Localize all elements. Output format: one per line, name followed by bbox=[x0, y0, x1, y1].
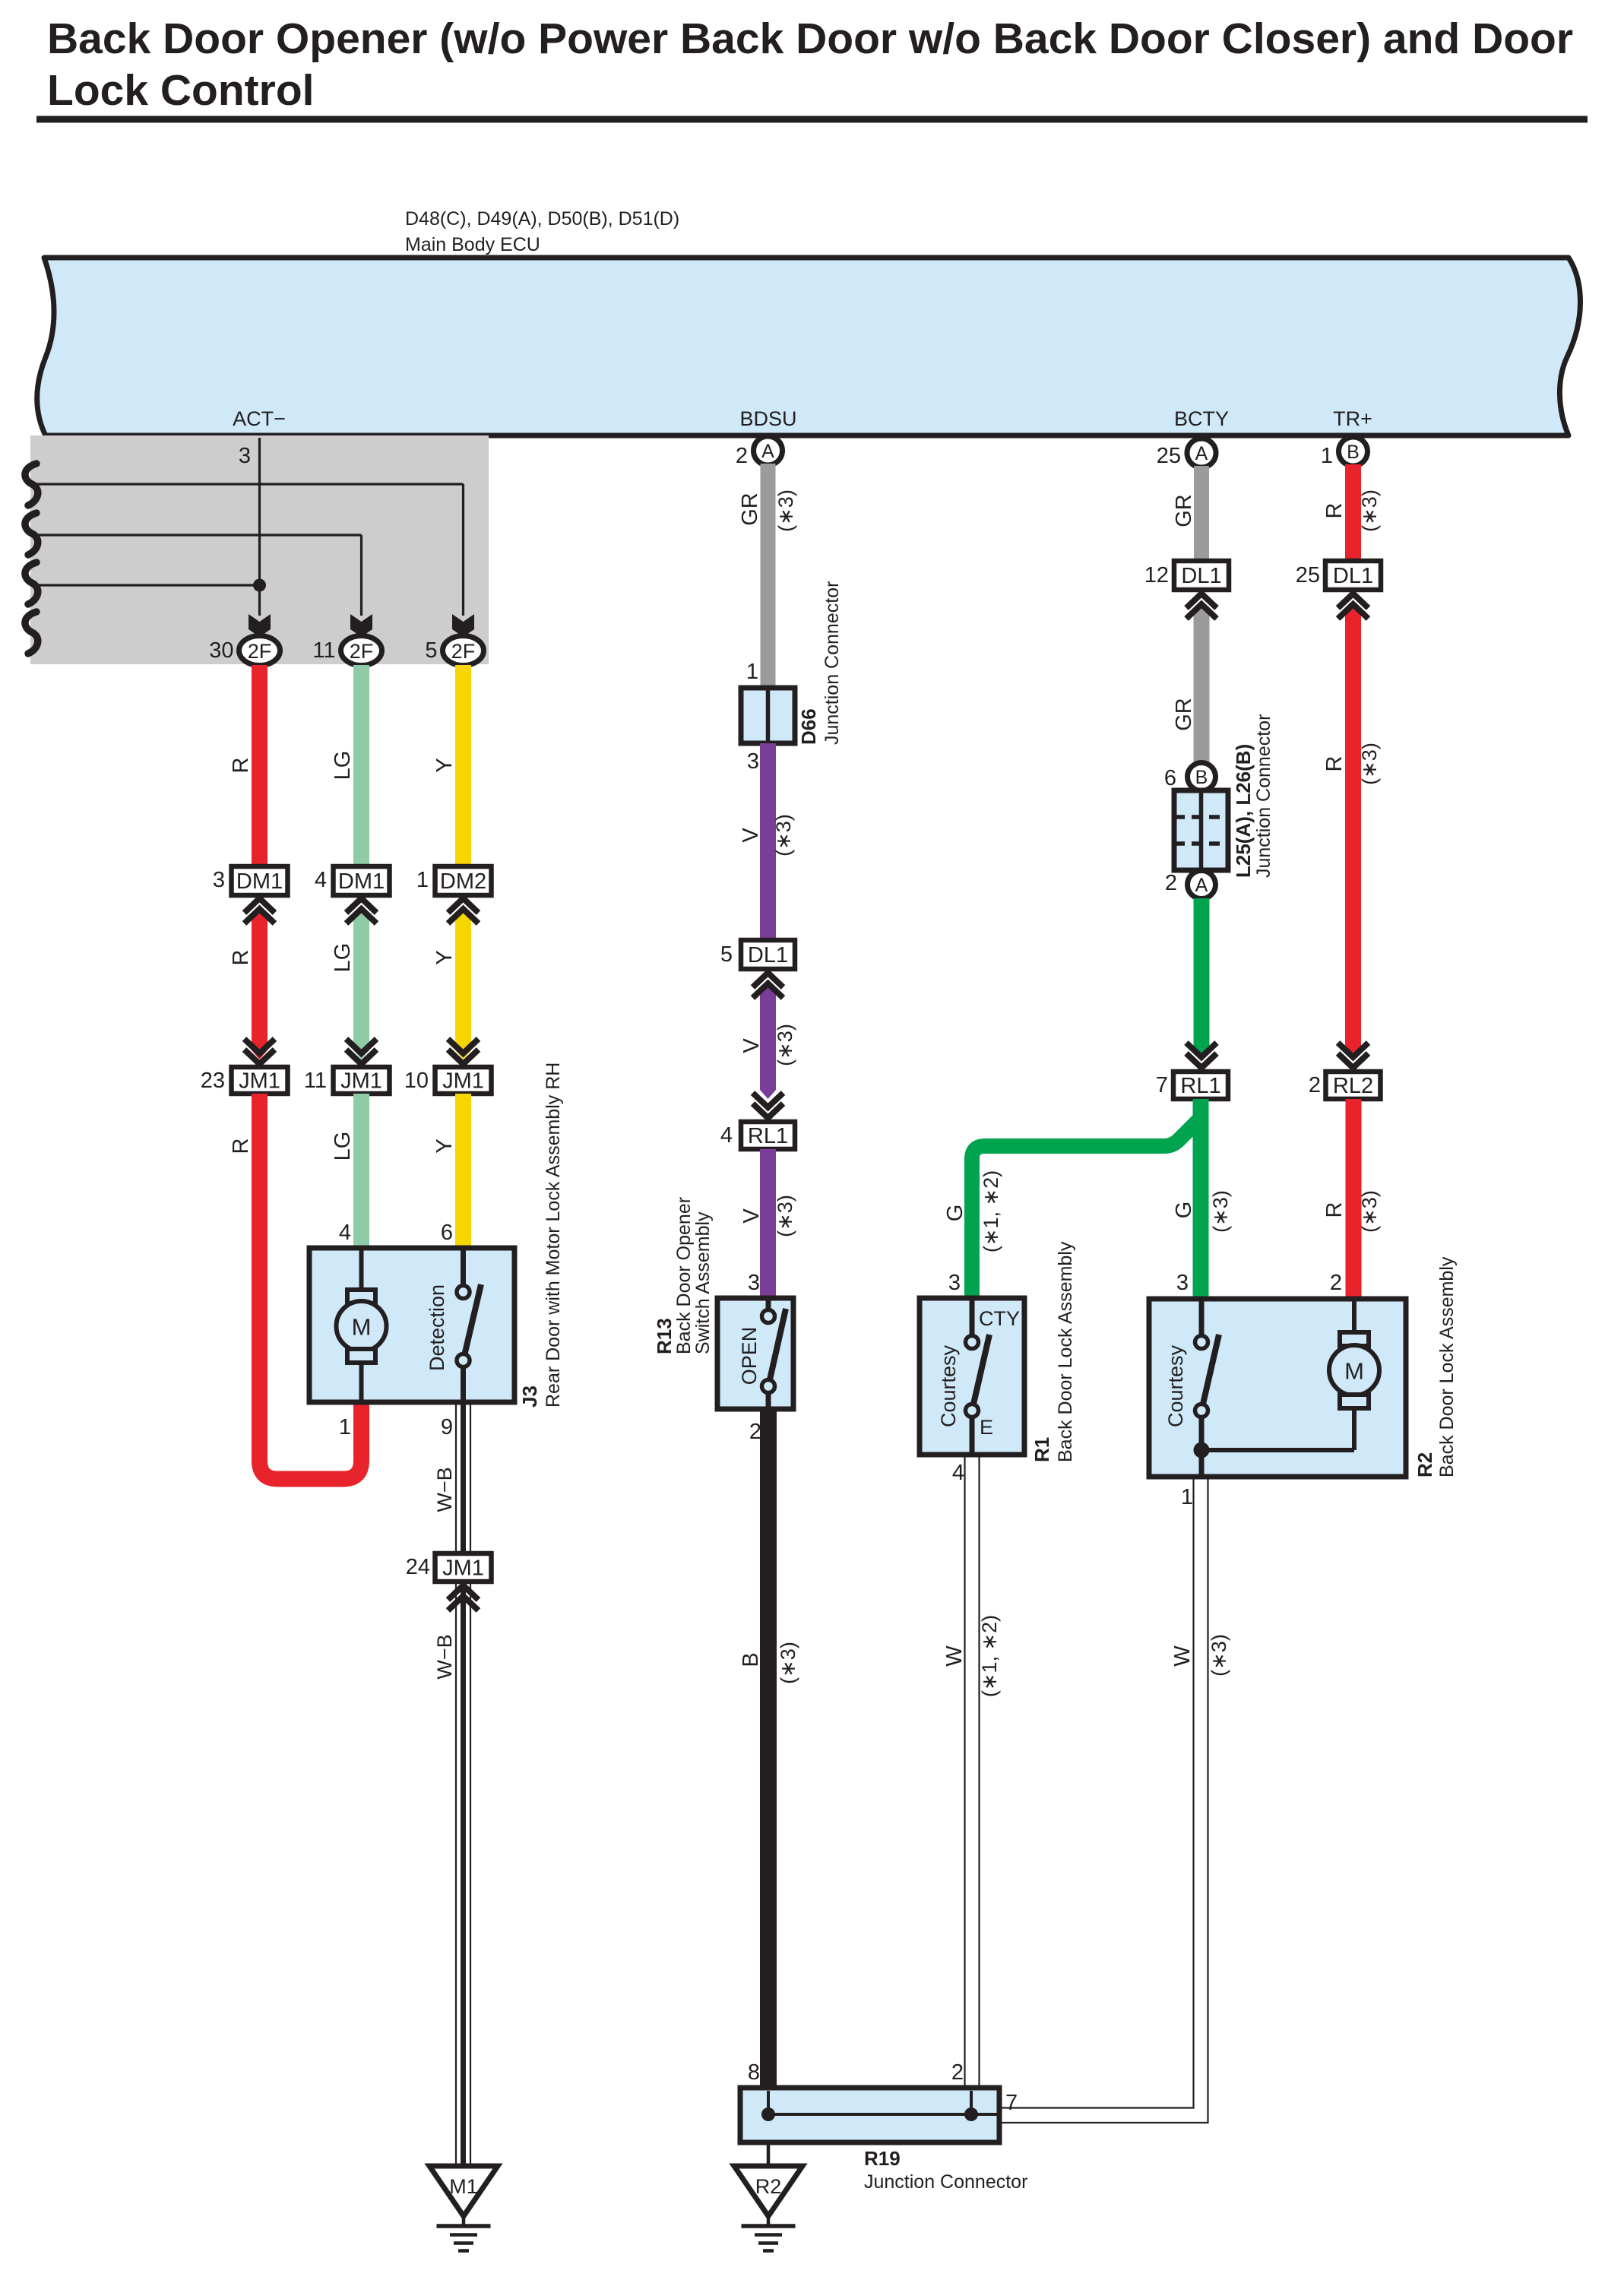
label Back Door Opener bbox=[673, 1197, 695, 1354]
label (*1, *2) bbox=[980, 1170, 1002, 1252]
svg-text:6: 6 bbox=[441, 1221, 453, 1245]
svg-text:3: 3 bbox=[747, 749, 759, 774]
connector 2F pin 5 bbox=[425, 636, 483, 666]
svg-text:2: 2 bbox=[1309, 1073, 1321, 1097]
label (*1, *2) bbox=[978, 1615, 1001, 1697]
chevrons above JM1 pin 10 bbox=[448, 1039, 479, 1064]
chevrons above RL2 pin 2 bbox=[1338, 1043, 1369, 1068]
connector DM2 pin 1 bbox=[416, 866, 492, 895]
wire R from TR+ to DL1 bbox=[1345, 464, 1361, 562]
label LG bbox=[331, 751, 355, 781]
pin 4 of J3 bbox=[339, 1221, 351, 1245]
label (*3) bbox=[772, 814, 795, 857]
wire R DM1 to JM1 bbox=[252, 909, 268, 1059]
svg-text:RL1: RL1 bbox=[748, 1124, 788, 1148]
junction connector D66 bbox=[741, 688, 795, 743]
svg-text:(∗3): (∗3) bbox=[774, 1024, 796, 1066]
svg-text:B: B bbox=[1347, 442, 1360, 463]
svg-text:(∗3): (∗3) bbox=[772, 814, 795, 857]
block R2 Back Door Lock Assembly bbox=[1149, 1299, 1406, 1477]
pin 2 of R19 bbox=[951, 2060, 964, 2085]
svg-text:11: 11 bbox=[312, 638, 335, 663]
svg-text:(∗1, ∗2): (∗1, ∗2) bbox=[978, 1615, 1001, 1697]
svg-text:R: R bbox=[1322, 756, 1347, 772]
svg-text:Junction Connector: Junction Connector bbox=[821, 581, 843, 745]
svg-text:6: 6 bbox=[1164, 766, 1176, 790]
svg-text:(∗3): (∗3) bbox=[777, 1642, 799, 1684]
svg-text:E: E bbox=[980, 1416, 993, 1439]
label R bbox=[229, 758, 253, 774]
wire R RL2 to R2 pin 2 bbox=[1346, 1099, 1362, 1300]
wire LG from 2F-11 to DM1 bbox=[353, 665, 369, 867]
wire LG JM1-11 to J3 pin 4 bbox=[353, 1094, 369, 1249]
wire Y JM1-10 to J3 pin 6 bbox=[455, 1094, 471, 1249]
svg-text:4: 4 bbox=[339, 1221, 351, 1245]
svg-text:W: W bbox=[942, 1645, 967, 1667]
svg-text:Courtesy: Courtesy bbox=[1164, 1344, 1187, 1427]
svg-text:M: M bbox=[352, 1314, 372, 1341]
svg-text:G: G bbox=[1172, 1202, 1196, 1219]
svg-text:(∗3): (∗3) bbox=[1208, 1634, 1230, 1677]
label G (branch) bbox=[943, 1205, 967, 1222]
label (*3) bbox=[777, 1642, 799, 1684]
label R bbox=[1322, 756, 1347, 772]
connector DL1 pin 12 bbox=[1144, 561, 1229, 590]
svg-text:2: 2 bbox=[749, 1420, 761, 1444]
wire ACT- vertical drop bbox=[258, 438, 261, 616]
label W bbox=[1170, 1645, 1195, 1667]
svg-text:R: R bbox=[229, 950, 253, 966]
net label ACT- bbox=[233, 407, 286, 430]
label R13 bbox=[653, 1318, 676, 1354]
motor M of R2 bbox=[1329, 1299, 1379, 1450]
pin 3 ACT- of Main Body ECU bbox=[239, 444, 251, 468]
chevrons below DL1 pin 12 bbox=[1186, 594, 1217, 619]
svg-text:B: B bbox=[1195, 767, 1208, 788]
label LG bbox=[331, 943, 355, 973]
chevrons above JM1 pin 23 bbox=[245, 1039, 275, 1064]
block R1 Back Door Lock Assembly bbox=[920, 1298, 1024, 1455]
svg-text:2: 2 bbox=[736, 444, 748, 468]
wire harness branch top bbox=[30, 484, 464, 616]
svg-text:A: A bbox=[1195, 875, 1208, 896]
pin 2 (A) BDSU of Main Body ECU bbox=[736, 436, 783, 468]
svg-text:R: R bbox=[1322, 1202, 1347, 1218]
label V bbox=[739, 1208, 764, 1224]
connector DL1 pin 5 bbox=[720, 940, 795, 969]
pin 1 of D66 bbox=[746, 660, 758, 684]
pin 6 of J3 bbox=[441, 1221, 453, 1245]
svg-text:LG: LG bbox=[331, 943, 355, 973]
harness shield region (gray) bbox=[25, 435, 489, 664]
chevrons below DL1 pin 25 bbox=[1338, 594, 1369, 619]
svg-text:2F: 2F bbox=[451, 640, 476, 663]
svg-text:(∗3): (∗3) bbox=[1358, 1190, 1381, 1233]
svg-text:V: V bbox=[739, 1208, 764, 1224]
block J3 Rear Door with Motor Lock Assembly RH bbox=[309, 1248, 514, 1402]
label Rear Door with Motor Lock Assembly RH bbox=[543, 1062, 564, 1408]
svg-text:Switch Assembly: Switch Assembly bbox=[692, 1211, 714, 1354]
title rule bbox=[36, 116, 1588, 123]
wire V RL1 to R13 pin 3 bbox=[760, 1149, 776, 1299]
svg-text:(∗3): (∗3) bbox=[1358, 489, 1381, 532]
svg-text:DL1: DL1 bbox=[748, 943, 788, 967]
svg-text:V: V bbox=[739, 1038, 764, 1053]
svg-text:RL1: RL1 bbox=[1180, 1074, 1220, 1098]
pin 2 of R13 bbox=[749, 1420, 761, 1444]
label D66 bbox=[797, 708, 820, 745]
svg-text:Y: Y bbox=[432, 1138, 457, 1153]
svg-text:Back Door Lock Assembly: Back Door Lock Assembly bbox=[1436, 1256, 1458, 1477]
svg-text:(∗3): (∗3) bbox=[1358, 743, 1381, 785]
svg-text:R: R bbox=[1322, 503, 1347, 519]
svg-text:RL2: RL2 bbox=[1333, 1074, 1373, 1098]
svg-text:Detection: Detection bbox=[426, 1284, 448, 1371]
label B bbox=[739, 1652, 763, 1667]
svg-text:R2: R2 bbox=[1413, 1452, 1436, 1477]
wire GR from BDSU to D66 bbox=[761, 464, 776, 689]
svg-text:Junction Connector: Junction Connector bbox=[1253, 714, 1274, 878]
net label TR+ bbox=[1333, 407, 1372, 430]
wire W from R2 pin 1 to R19 pin 7 bbox=[999, 1477, 1208, 2123]
svg-text:G: G bbox=[943, 1205, 967, 1222]
label Junction Connector (D66) bbox=[821, 581, 843, 745]
pin 3 of D66 bbox=[747, 749, 759, 774]
svg-text:(∗3): (∗3) bbox=[774, 1195, 796, 1237]
svg-text:2: 2 bbox=[1330, 1271, 1342, 1295]
svg-text:(∗1, ∗2): (∗1, ∗2) bbox=[980, 1170, 1002, 1252]
wire harness branch middle bbox=[30, 535, 362, 616]
title text bbox=[47, 14, 1573, 115]
label R19 bbox=[864, 2147, 901, 2170]
pin 7 of R19 bbox=[1005, 2091, 1018, 2115]
internal bus of R19 bbox=[761, 2091, 999, 2121]
svg-text:M: M bbox=[1344, 1358, 1364, 1385]
svg-text:A: A bbox=[761, 441, 774, 462]
svg-text:LG: LG bbox=[331, 751, 355, 781]
wire R JM1-23 down and around to J3 pin 1 bbox=[252, 1094, 362, 1479]
label (*3) bbox=[1209, 1190, 1232, 1233]
svg-text:Rear Door with Motor Lock Asse: Rear Door with Motor Lock Assembly RH bbox=[543, 1062, 564, 1408]
label V bbox=[739, 1038, 764, 1053]
svg-text:3: 3 bbox=[213, 868, 225, 892]
svg-text:R: R bbox=[229, 758, 253, 774]
svg-text:2F: 2F bbox=[248, 640, 272, 663]
label GR bbox=[738, 492, 762, 526]
svg-text:GR: GR bbox=[738, 492, 762, 526]
svg-text:9: 9 bbox=[441, 1415, 453, 1439]
label J3 bbox=[518, 1385, 541, 1408]
svg-text:30: 30 bbox=[209, 638, 233, 663]
svg-text:OPEN: OPEN bbox=[738, 1327, 761, 1385]
arrow into connector 2F pin 11 bbox=[350, 614, 372, 637]
net label BCTY bbox=[1174, 407, 1229, 430]
node junction dot on ACT- wire bbox=[253, 579, 266, 592]
svg-text:2: 2 bbox=[1165, 871, 1177, 895]
svg-text:B: B bbox=[739, 1652, 763, 1667]
svg-text:D66: D66 bbox=[797, 708, 820, 745]
svg-text:1: 1 bbox=[746, 660, 758, 684]
label R bbox=[229, 950, 253, 966]
svg-text:DM2: DM2 bbox=[440, 869, 486, 894]
svg-text:R19: R19 bbox=[864, 2147, 901, 2170]
connector RL1 pin 4 bbox=[720, 1122, 795, 1149]
svg-text:JM1: JM1 bbox=[442, 1069, 484, 1094]
svg-text:12: 12 bbox=[1144, 563, 1169, 587]
pin 6 (B) of L25/L26 bbox=[1164, 763, 1216, 791]
svg-text:4: 4 bbox=[720, 1123, 733, 1148]
svg-text:DM1: DM1 bbox=[338, 869, 385, 894]
svg-text:4: 4 bbox=[315, 868, 327, 892]
label GR bbox=[1172, 494, 1196, 527]
label G bbox=[1172, 1202, 1196, 1219]
svg-text:LG: LG bbox=[331, 1132, 355, 1161]
svg-text:DM1: DM1 bbox=[236, 869, 283, 894]
pin 2 of R2 bbox=[1330, 1271, 1342, 1295]
net label BDSU bbox=[739, 407, 796, 430]
svg-text:(∗3): (∗3) bbox=[774, 489, 797, 532]
junction connector L25(A) L26(B) bbox=[1174, 790, 1228, 870]
label (*3) bbox=[1358, 489, 1381, 532]
junction connector R19 bbox=[740, 2088, 999, 2142]
label Junction Connector (R19) bbox=[864, 2171, 1027, 2193]
pin 3 of R2 bbox=[1176, 1271, 1189, 1295]
wire R19 to ground R2 bbox=[767, 2142, 771, 2167]
svg-text:5: 5 bbox=[720, 942, 733, 967]
svg-text:BDSU: BDSU bbox=[739, 407, 796, 430]
label GR bbox=[1172, 698, 1196, 731]
ECU Main Body ECU block bbox=[37, 258, 1581, 435]
pin 9 of J3 bbox=[441, 1415, 453, 1439]
svg-text:Junction Connector: Junction Connector bbox=[864, 2171, 1027, 2193]
svg-text:A: A bbox=[1195, 443, 1208, 464]
motor M of J3 bbox=[337, 1248, 387, 1402]
pin 1 (B) TR+ of Main Body ECU bbox=[1321, 437, 1368, 468]
pin 8 of R19 bbox=[748, 2060, 760, 2085]
svg-text:R2: R2 bbox=[755, 2175, 782, 2198]
connector JM1 pin 24 bbox=[406, 1553, 492, 1582]
svg-text:4: 4 bbox=[952, 1461, 964, 1485]
svg-text:Back Door Opener: Back Door Opener bbox=[673, 1197, 695, 1354]
chevrons above RL1 pin 7 bbox=[1186, 1043, 1217, 1068]
switch OPEN of R13 bbox=[738, 1298, 786, 1409]
label Back Door Lock Assembly (R1) bbox=[1055, 1241, 1076, 1462]
connector DL1 pin 25 bbox=[1296, 561, 1381, 590]
wire GR from BCTY to DL1 bbox=[1194, 466, 1209, 562]
label LG bbox=[331, 1132, 355, 1161]
svg-text:11: 11 bbox=[304, 1069, 327, 1093]
svg-text:3: 3 bbox=[1176, 1271, 1189, 1295]
svg-text:R1: R1 bbox=[1030, 1437, 1053, 1462]
svg-text:DL1: DL1 bbox=[1333, 564, 1373, 588]
svg-text:8: 8 bbox=[748, 2060, 760, 2085]
connector RL2 pin 2 bbox=[1309, 1072, 1381, 1099]
label L25(A), L26(B) bbox=[1232, 744, 1255, 878]
chevrons below DM1 pin 4 bbox=[347, 898, 377, 923]
label Switch Assembly bbox=[692, 1211, 714, 1354]
label Y bbox=[432, 758, 457, 772]
svg-text:1: 1 bbox=[416, 868, 429, 892]
svg-text:W−B: W−B bbox=[433, 1467, 456, 1512]
label (*3) bbox=[774, 1024, 796, 1066]
svg-text:R13: R13 bbox=[653, 1318, 676, 1354]
svg-text:Back Door Opener (w/o Power Ba: Back Door Opener (w/o Power Back Door w/… bbox=[47, 14, 1573, 63]
wire B from R13 pin 2 to R19 pin 8 bbox=[760, 1409, 777, 2088]
wire GR DL1 to L25 junction bbox=[1194, 604, 1210, 763]
pin 1 of J3 bbox=[339, 1415, 351, 1439]
connector 2F pin 11 bbox=[312, 636, 381, 666]
label W bbox=[942, 1645, 967, 1667]
label (*3) bbox=[1358, 743, 1381, 785]
chevrons below JM1 pin 24 bbox=[448, 1585, 479, 1610]
chevrons above JM1 pin 11 bbox=[347, 1039, 377, 1064]
ground M1 bbox=[429, 2166, 498, 2251]
pin 3 of R1 bbox=[948, 1271, 961, 1295]
svg-text:ACT−: ACT− bbox=[233, 407, 286, 430]
wire harness branch bottom bbox=[30, 584, 260, 586]
svg-text:JM1: JM1 bbox=[442, 1556, 484, 1581]
svg-text:JM1: JM1 bbox=[239, 1069, 280, 1094]
svg-text:3: 3 bbox=[748, 1271, 760, 1295]
wire W from R1 pin 4 to R19 pin 2 bbox=[965, 1455, 980, 2088]
svg-text:R: R bbox=[229, 1138, 253, 1154]
pin 1 of R2 bbox=[1181, 1485, 1193, 1509]
label Back Door Lock Assembly (R2) bbox=[1436, 1256, 1458, 1477]
connector 2F pin 30 bbox=[209, 636, 280, 666]
svg-text:(∗3): (∗3) bbox=[1209, 1190, 1232, 1233]
connector DM1 pin 3 bbox=[213, 866, 288, 895]
label W-B bbox=[433, 1634, 456, 1679]
label W-B bbox=[433, 1467, 456, 1512]
node junction in R2 bbox=[1194, 1442, 1355, 1458]
svg-text:GR: GR bbox=[1172, 494, 1196, 527]
svg-text:M1: M1 bbox=[449, 2175, 478, 2198]
courtesy switch of R2 bbox=[1164, 1299, 1219, 1477]
label Main Body ECU designators D48(C), D49(A), D50(B), D51(D) bbox=[405, 208, 679, 255]
connector RL1 pin 7 bbox=[1156, 1072, 1228, 1099]
svg-text:Back Door Lock Assembly: Back Door Lock Assembly bbox=[1055, 1241, 1076, 1462]
label R bbox=[1322, 1202, 1347, 1218]
svg-text:1: 1 bbox=[1321, 444, 1333, 468]
svg-text:JM1: JM1 bbox=[340, 1069, 382, 1094]
svg-text:D48(C), D49(A), D50(B), D51(D): D48(C), D49(A), D50(B), D51(D) bbox=[405, 208, 679, 230]
wire V DL1 to RL1 bbox=[760, 983, 776, 1099]
courtesy switch of R1 bbox=[937, 1298, 1020, 1455]
label R1 bbox=[1030, 1437, 1053, 1462]
svg-text:W−B: W−B bbox=[433, 1634, 456, 1679]
wire R from 2F-30 to DM1 bbox=[252, 665, 268, 867]
svg-text:Courtesy: Courtesy bbox=[937, 1344, 960, 1427]
svg-text:10: 10 bbox=[404, 1069, 429, 1093]
svg-text:Y: Y bbox=[432, 758, 457, 772]
ground R2 bbox=[734, 2166, 803, 2251]
svg-text:2: 2 bbox=[951, 2060, 964, 2085]
label R bbox=[1322, 503, 1347, 519]
connector JM1 pin 23 bbox=[201, 1067, 288, 1094]
chevrons below DL1 pin 5 bbox=[753, 973, 784, 998]
label (*3) bbox=[774, 489, 797, 532]
pin 25 (A) BCTY of Main Body ECU bbox=[1157, 439, 1216, 468]
svg-text:3: 3 bbox=[239, 444, 251, 468]
block R13 Back Door Opener Switch Assembly bbox=[717, 1298, 793, 1409]
wire G RL1 to R2 pin 3 with branch to R1 bbox=[972, 1099, 1209, 1300]
wire W-B from J3 pin 9 to JM1 pin 24 bbox=[456, 1402, 470, 1554]
chevrons below DM2 pin 1 bbox=[448, 898, 479, 923]
label R bbox=[229, 1138, 253, 1154]
arrow into connector 2F pin 30 bbox=[249, 614, 271, 637]
pin 3 of R13 bbox=[748, 1271, 760, 1295]
svg-text:Main Body ECU: Main Body ECU bbox=[405, 234, 540, 255]
svg-text:CTY: CTY bbox=[979, 1307, 1020, 1330]
wire R DL1 to RL2 bbox=[1345, 604, 1361, 1059]
svg-text:5: 5 bbox=[425, 638, 437, 663]
label Y bbox=[432, 1138, 457, 1153]
svg-text:1: 1 bbox=[1181, 1485, 1193, 1509]
label (*3) bbox=[1208, 1634, 1230, 1677]
chevrons above RL1 pin 4 bbox=[753, 1093, 784, 1118]
wire Y DM2 to JM1 bbox=[455, 909, 471, 1059]
wire LG DM1 to JM1 bbox=[353, 909, 369, 1059]
svg-text:24: 24 bbox=[406, 1555, 430, 1579]
svg-text:7: 7 bbox=[1005, 2091, 1018, 2115]
label Y bbox=[432, 950, 457, 964]
svg-text:3: 3 bbox=[948, 1271, 961, 1295]
chevrons below DM1 pin 3 bbox=[245, 898, 275, 923]
detection switch of J3 bbox=[426, 1248, 481, 1402]
wire V from D66 to DL1 bbox=[760, 743, 776, 941]
svg-text:L25(A), L26(B): L25(A), L26(B) bbox=[1232, 744, 1255, 878]
label (*3) bbox=[1358, 1190, 1381, 1233]
label Junction Connector (L25) bbox=[1253, 714, 1274, 878]
svg-text:GR: GR bbox=[1172, 698, 1196, 731]
svg-text:TR+: TR+ bbox=[1333, 407, 1372, 430]
svg-text:23: 23 bbox=[201, 1069, 225, 1093]
label (*3) bbox=[774, 1195, 796, 1237]
wire G from L25 to RL1 bbox=[1194, 898, 1210, 1059]
svg-text:J3: J3 bbox=[518, 1385, 541, 1408]
svg-text:Y: Y bbox=[432, 950, 457, 964]
label V bbox=[739, 828, 763, 843]
svg-text:25: 25 bbox=[1157, 444, 1181, 468]
connector DM1 pin 4 bbox=[315, 866, 390, 895]
pin 4 of R1 bbox=[952, 1461, 964, 1485]
pin 2 (A) of L25/L26 bbox=[1165, 871, 1216, 899]
svg-text:2F: 2F bbox=[350, 640, 374, 663]
svg-text:BCTY: BCTY bbox=[1174, 407, 1229, 430]
svg-text:25: 25 bbox=[1296, 563, 1320, 587]
connector JM1 pin 10 bbox=[404, 1067, 492, 1094]
svg-text:7: 7 bbox=[1156, 1073, 1168, 1097]
svg-text:1: 1 bbox=[339, 1415, 351, 1439]
wire W-B from JM1 pin 24 to ground M1 bbox=[456, 1582, 470, 2167]
svg-text:DL1: DL1 bbox=[1181, 564, 1221, 588]
connector JM1 pin 11 bbox=[304, 1067, 390, 1094]
label R2 bbox=[1413, 1452, 1436, 1477]
svg-text:W: W bbox=[1170, 1645, 1195, 1667]
wire Y from 2F-5 to DM2 bbox=[455, 665, 471, 867]
arrow into connector 2F pin 5 bbox=[452, 614, 474, 637]
svg-text:V: V bbox=[739, 828, 763, 843]
svg-text:Lock Control: Lock Control bbox=[47, 66, 315, 115]
